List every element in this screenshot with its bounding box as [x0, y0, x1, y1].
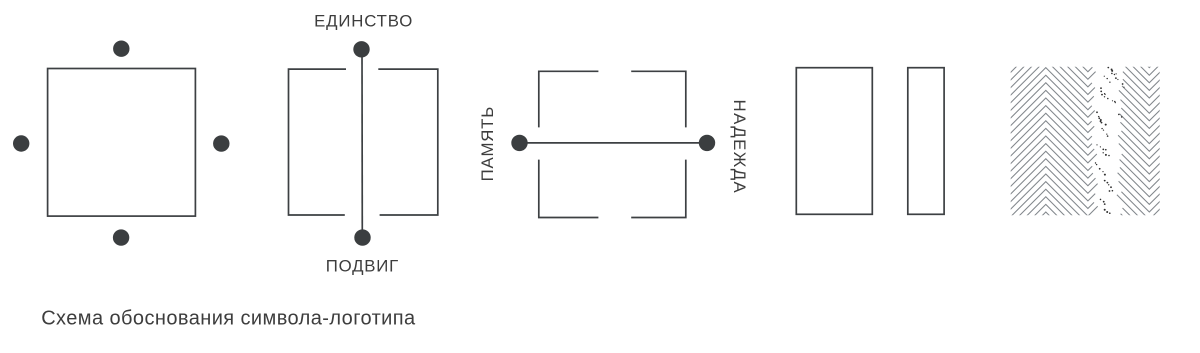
dot top of square 2 (ЕДИНСТВО node)	[353, 41, 369, 57]
dot right of square 1	[213, 135, 229, 151]
vertical axis line of square 2	[361, 49, 363, 237]
horizontal axis line of square 3	[520, 142, 708, 144]
label НАДЕЖДА (rotated)	[730, 100, 749, 195]
rectangle 4a (wide bar)	[796, 68, 872, 215]
svg-text:ПАМЯТЬ: ПАМЯТЬ	[478, 106, 497, 181]
dot left of square 1	[13, 135, 29, 151]
dot bottom of square 1	[113, 229, 129, 245]
stipple dots band	[1095, 67, 1125, 214]
rectangle 4b (narrow bar)	[908, 68, 944, 215]
dot left of square 3 (ПАМЯТЬ node)	[511, 135, 527, 151]
right herringbone lines	[1121, 17, 1160, 45]
svg-text:ЕДИНСТВО: ЕДИНСТВО	[314, 12, 413, 31]
label ПАМЯТЬ (rotated)	[478, 106, 497, 181]
square 2 (split top and bottom edges)	[289, 69, 438, 215]
left herringbone lines	[962, 22, 1094, 64]
herringbone pattern block	[962, 17, 1161, 254]
dot top of square 1	[113, 41, 129, 57]
label ЕДИНСТВО	[314, 12, 413, 31]
svg-text:ПОДВИГ: ПОДВИГ	[326, 257, 399, 276]
square 1 (plain square)	[48, 69, 196, 217]
square 3 (four corner brackets)	[539, 71, 686, 217]
caption Схема обоснования символа-логотипа	[41, 308, 416, 330]
svg-text:Схема обоснования символа-лого: Схема обоснования символа-логотипа	[41, 308, 416, 330]
dot right of square 3 (НАДЕЖДА node)	[699, 135, 715, 151]
dot bottom of square 2 (ПОДВИГ node)	[354, 229, 370, 245]
label ПОДВИГ	[326, 257, 399, 276]
svg-text:НАДЕЖДА: НАДЕЖДА	[730, 100, 749, 195]
